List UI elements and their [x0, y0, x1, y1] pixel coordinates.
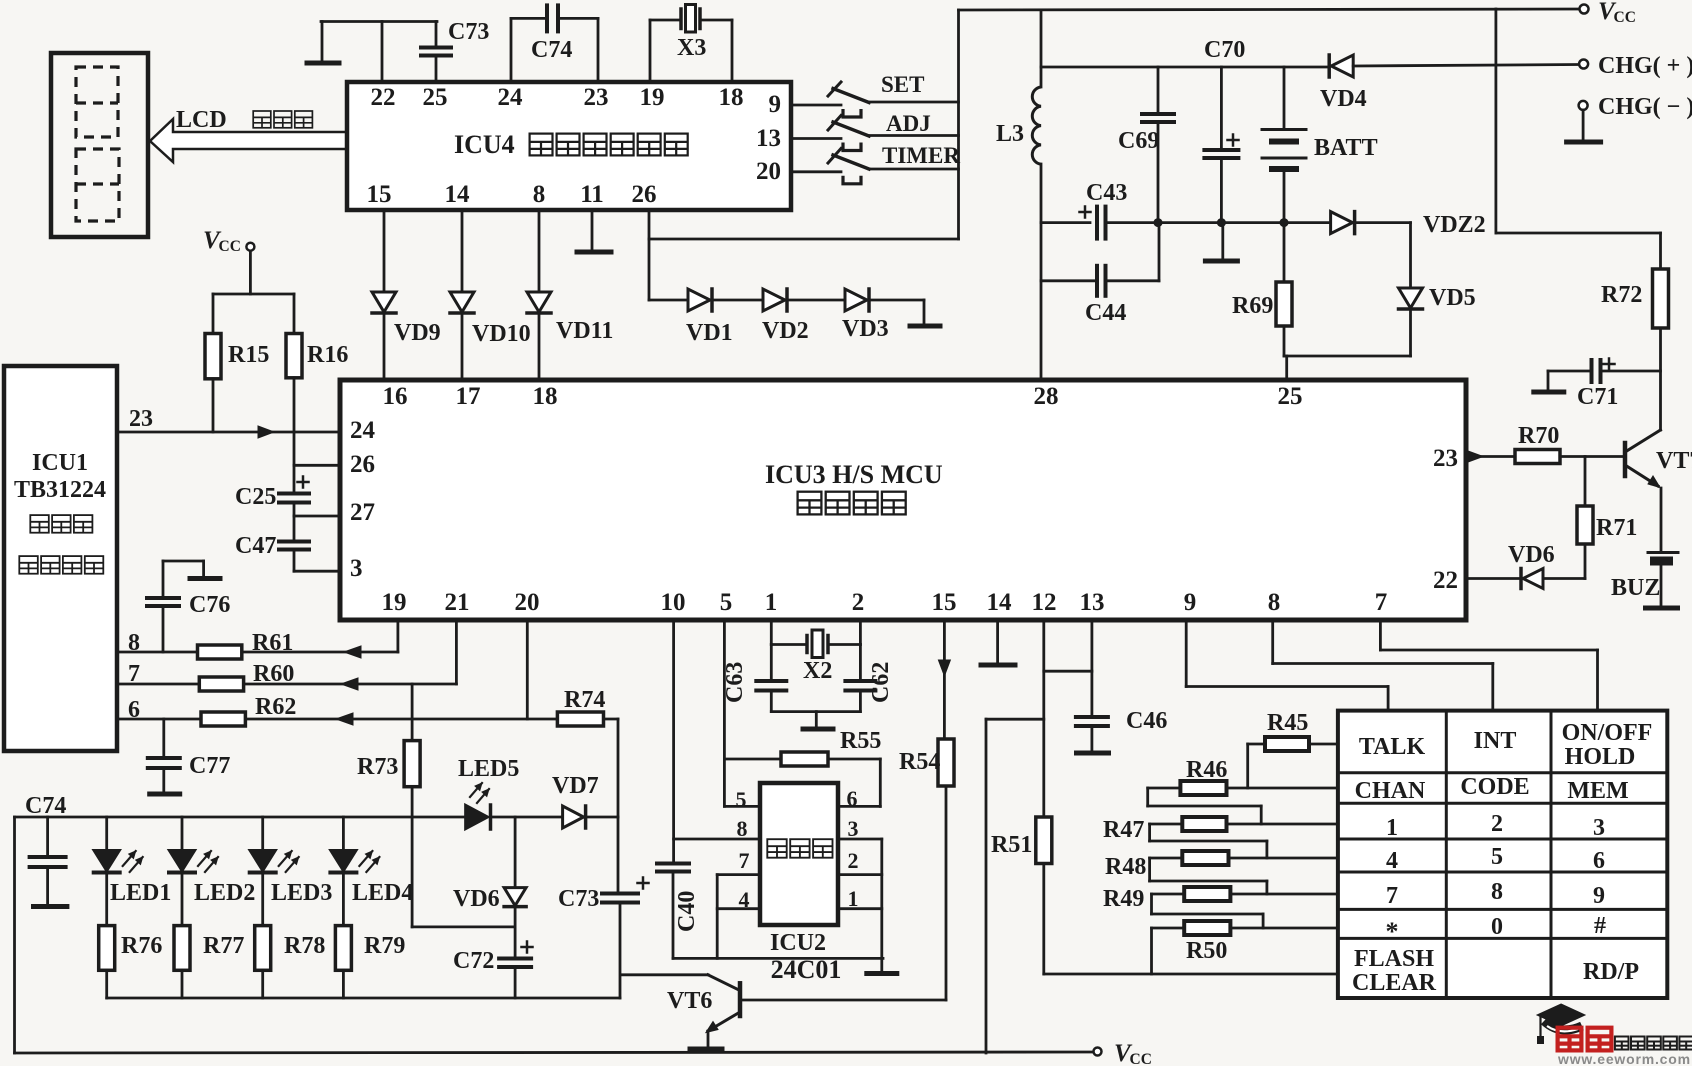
LED LED1 — [105, 817, 108, 850]
diode VD6 (LED block) — [514, 817, 517, 888]
diode VD7 — [563, 806, 584, 828]
LED LED4 — [342, 817, 345, 850]
svg-text:VD10: VD10 — [472, 321, 531, 347]
resistor R72 — [1659, 233, 1662, 269]
svg-text:R15: R15 — [228, 342, 269, 368]
capacitor C73 (LED block) — [617, 817, 620, 892]
bottom rail — [15, 1052, 1094, 1053]
svg-text:R78: R78 — [284, 933, 325, 959]
svg-text:C74: C74 — [25, 793, 66, 819]
svg-text:8: 8 — [1491, 879, 1503, 905]
svg-text:CHG( − ): CHG( − ) — [1598, 94, 1692, 120]
wire pin20 to switch TIMER — [791, 170, 841, 173]
resistor R79 — [342, 874, 345, 926]
wire pins 7/4 down to rail — [716, 875, 719, 959]
wire ICU1 pin7 row — [117, 683, 199, 686]
svg-text:2: 2 — [852, 589, 865, 616]
IC U1 box TB31224 — [4, 366, 117, 751]
svg-text:X3: X3 — [677, 35, 706, 61]
diode VD9 — [372, 292, 396, 312]
wire ICU2 bottom rail — [673, 957, 883, 960]
svg-text:L3: L3 — [996, 121, 1024, 147]
wire R48 left chain to row7 — [1150, 857, 1183, 860]
svg-text:MEM: MEM — [1567, 778, 1628, 804]
svg-text:3: 3 — [848, 816, 859, 841]
wire C76 to ground hook — [162, 561, 165, 598]
svg-text:23: 23 — [1433, 445, 1458, 472]
svg-text:12: 12 — [1032, 589, 1057, 616]
capacitor C72 — [514, 907, 517, 957]
svg-text:1: 1 — [765, 589, 778, 616]
wire R74 to LED bus — [604, 718, 619, 721]
wire ADJ to bus — [869, 134, 959, 137]
svg-text:2: 2 — [848, 848, 859, 873]
ground C77 — [162, 768, 165, 793]
wire ICU3 pin27 stub — [294, 515, 339, 518]
svg-text:R50: R50 — [1186, 938, 1227, 964]
svg-text:C40: C40 — [674, 891, 700, 932]
LED LED3 — [261, 817, 264, 850]
svg-text:8: 8 — [737, 816, 748, 841]
svg-text:25: 25 — [1278, 383, 1303, 410]
svg-text:6: 6 — [1593, 848, 1605, 874]
capacitor C74 (top) — [545, 5, 549, 31]
svg-text:ICU4: ICU4 — [454, 130, 515, 159]
wire Vcc to R15/R16 — [249, 251, 252, 294]
wire R79 to bottom bus — [342, 970, 345, 998]
svg-text:0: 0 — [1491, 914, 1503, 940]
junction row C43 — [1041, 221, 1090, 224]
svg-text:VD11: VD11 — [556, 318, 613, 344]
wire SET to bus — [869, 101, 959, 104]
wire ICU3 pin13 stub — [1091, 620, 1094, 716]
wire C69 stem — [1157, 67, 1160, 113]
svg-text:ADJ: ADJ — [886, 111, 931, 136]
svg-text:8: 8 — [533, 181, 546, 208]
LED top bus — [15, 816, 466, 819]
wire ICU2 pin6 — [838, 805, 880, 808]
crystal X2 — [805, 636, 809, 653]
svg-text:VT7: VT7 — [1656, 448, 1692, 474]
svg-text:26: 26 — [632, 181, 657, 208]
wire pin13 to switch ADJ — [791, 137, 841, 140]
wire VD6 to R71 — [1543, 577, 1585, 580]
resistor R45 — [1265, 737, 1309, 751]
resistor R69 — [1283, 223, 1286, 282]
resistor R71 — [1584, 457, 1587, 507]
wire ICU3 pin5 column — [723, 620, 726, 806]
svg-text:CLEAR: CLEAR — [1352, 970, 1437, 996]
wire ICU3 pin8 to keypad col2 — [1271, 620, 1274, 664]
svg-text:R73: R73 — [357, 754, 398, 780]
svg-text:R74: R74 — [564, 687, 605, 713]
wire ICU1 pin6 row — [117, 718, 201, 721]
svg-text:CC: CC — [1130, 1051, 1152, 1066]
svg-text:15: 15 — [932, 589, 957, 616]
svg-text:www.eeworm.com: www.eeworm.com — [1557, 1051, 1691, 1066]
wire R69 to ICU3 pin25 — [1283, 326, 1286, 356]
capacitor C43 (series) — [1080, 211, 1091, 214]
ground top-left — [321, 22, 324, 63]
wire pin14 down — [461, 210, 464, 292]
wire R45 left to CHAN row — [1248, 743, 1265, 746]
svg-text:VDZ2: VDZ2 — [1423, 212, 1486, 238]
IC U3 box H/S MCU — [340, 380, 1466, 620]
wire VT7 emitter to BUZ — [1660, 488, 1663, 551]
wire C71 left to ground — [1548, 370, 1589, 373]
terminal CHG(-) — [1579, 101, 1588, 110]
keypad table — [1338, 711, 1667, 998]
wire VT6 emitter to ground — [707, 1031, 710, 1048]
ground X2 — [803, 727, 833, 732]
wire ICU3 pin2 down — [859, 620, 862, 645]
wire R46 to CHAN — [1227, 787, 1338, 790]
svg-text:14: 14 — [445, 181, 471, 208]
svg-text:C62: C62 — [868, 662, 894, 703]
capacitor C63 — [770, 645, 773, 681]
svg-text:VD3: VD3 — [842, 316, 889, 342]
svg-text:19: 19 — [382, 589, 407, 616]
wire R50 left to FLASH row — [1152, 927, 1185, 930]
svg-text:TALK: TALK — [1359, 734, 1426, 760]
svg-text:VD9: VD9 — [394, 320, 441, 346]
svg-text:5: 5 — [720, 589, 733, 616]
svg-text:ON/OFF: ON/OFF — [1562, 720, 1653, 746]
svg-text:R54: R54 — [899, 749, 940, 775]
svg-text:HOLD: HOLD — [1565, 744, 1636, 770]
junction dots on C43 row — [1154, 218, 1163, 227]
svg-text:23: 23 — [129, 406, 153, 432]
svg-text:C63: C63 — [722, 662, 748, 703]
wire VD5 to R69 bottom row — [1409, 311, 1412, 356]
ground VT6 — [690, 1047, 722, 1052]
svg-text:CC: CC — [1614, 9, 1636, 26]
capacitor C40 — [657, 862, 689, 866]
wire VD1 row — [649, 299, 688, 302]
wire R62 to ICU3 pin20 and R74 — [245, 718, 557, 721]
terminal CHG(+) — [1579, 60, 1588, 69]
wire ICU1 pin23 to ICU3 pin24 — [117, 431, 339, 434]
diode VD6 (buzzer) — [1523, 569, 1543, 589]
svg-text:#: # — [1594, 913, 1606, 939]
ground VD3 — [910, 324, 940, 329]
wire X2 ground rail — [770, 691, 773, 712]
watermark 电子下载站 — [1615, 1037, 1629, 1050]
wire C70 row — [1041, 66, 1329, 69]
wire pin23 to R70 — [1466, 455, 1515, 458]
wire R72 to VT7 collector — [1659, 328, 1662, 430]
wire ICU3 pin1 down — [770, 620, 773, 645]
capacitor C73 (top) — [421, 46, 451, 50]
ground C46 — [1091, 726, 1094, 752]
svg-text:ICU2: ICU2 — [770, 930, 826, 956]
svg-text:R76: R76 — [121, 933, 162, 959]
wire ICU2 pin5 — [724, 805, 760, 808]
svg-text:28: 28 — [1034, 383, 1059, 410]
wire R48 to keypad 4 — [1229, 857, 1338, 860]
svg-text:X2: X2 — [803, 658, 832, 684]
wire C69 to junction row — [1157, 122, 1160, 223]
transistor VT6 — [621, 973, 708, 976]
wire pin11 down — [591, 210, 594, 251]
svg-text:R72: R72 — [1601, 282, 1642, 308]
svg-text:C74: C74 — [531, 37, 572, 63]
wire VD2-VD3 — [787, 299, 845, 302]
svg-text:4: 4 — [1386, 848, 1398, 874]
wire ICU2 pins 3/2/1 to ground — [838, 838, 882, 841]
IC U2 box 存储器 — [760, 783, 838, 925]
resistor R76 — [105, 874, 108, 926]
svg-text:9: 9 — [1184, 589, 1197, 616]
wire R15 down — [212, 379, 215, 432]
svg-text:C76: C76 — [189, 592, 230, 618]
capacitor C70 (electrolytic) — [1204, 148, 1238, 152]
IC U4 box (liquid crystal display module) — [347, 82, 791, 210]
resistor R55 — [724, 758, 781, 761]
svg-text:22: 22 — [1433, 567, 1458, 594]
left vertical rail — [13, 817, 16, 1053]
terminal Vcc (top) — [1580, 5, 1589, 14]
svg-text:LED2: LED2 — [194, 880, 255, 906]
wire pin25 up — [435, 57, 438, 82]
svg-text:R55: R55 — [840, 728, 881, 754]
svg-text:VD4: VD4 — [1320, 86, 1367, 112]
LED LED2 — [181, 817, 184, 850]
buzzer BUZ — [1648, 551, 1678, 554]
svg-text:R45: R45 — [1267, 710, 1308, 736]
wire ICU2 pin8 to C40 column — [674, 838, 760, 841]
svg-text:9: 9 — [769, 91, 782, 118]
wire VT6 base row — [742, 999, 946, 1002]
capacitor C44 (parallel loop) — [1041, 279, 1094, 282]
svg-text:27: 27 — [350, 499, 375, 526]
diode VD10 — [450, 292, 474, 312]
wire pin24 to C74 — [510, 18, 513, 82]
wire C74 to pin23 — [558, 17, 598, 20]
Vcc top rail — [959, 9, 1585, 10]
ground ICU2 — [867, 971, 897, 976]
svg-text:LED1: LED1 — [110, 880, 171, 906]
svg-text:ICU1: ICU1 — [32, 450, 88, 476]
wire ICU3 pin22 to VD6 — [1466, 577, 1519, 580]
wire pin15 down — [383, 210, 386, 292]
resistor R70 — [1515, 450, 1560, 464]
svg-text:7: 7 — [1386, 883, 1398, 909]
svg-text:VD6: VD6 — [453, 886, 500, 912]
svg-text:R16: R16 — [307, 342, 348, 368]
ground BUZ — [1646, 606, 1678, 611]
LCD display box — [51, 53, 148, 237]
wire R47 left chain to row4 — [1150, 823, 1183, 826]
svg-text:C25: C25 — [235, 484, 276, 510]
wire ICU3 pin9 to keypad col1 — [1185, 620, 1188, 687]
resistor R61 — [198, 645, 242, 659]
svg-text:18: 18 — [719, 84, 744, 111]
wire VD9 to ICU3 pin16 — [383, 315, 386, 380]
svg-text:ICU3 H/S MCU: ICU3 H/S MCU — [765, 460, 943, 489]
svg-text:FLASH: FLASH — [1354, 946, 1434, 972]
resistor R16 — [293, 294, 296, 334]
svg-text:LCD: LCD — [176, 107, 227, 133]
wire pin12 branch to bottom Vcc rail — [986, 718, 1044, 721]
wire pin9 to switch SET — [791, 104, 841, 107]
watermark 虫虫 red — [1558, 1028, 1582, 1051]
wire R70 to VT7 base — [1560, 455, 1623, 458]
wire ICU3 pin15 with arrow — [943, 620, 946, 739]
svg-text:8: 8 — [1268, 589, 1281, 616]
ICU3 pin23 arrow out — [1468, 451, 1483, 462]
svg-text:2: 2 — [1491, 811, 1503, 837]
wire pin26 down — [648, 210, 651, 300]
wire VDZ2 corner down — [1357, 221, 1411, 224]
svg-text:18: 18 — [533, 383, 558, 410]
wire R71 to VD6 row — [1584, 544, 1587, 579]
svg-text:7: 7 — [1375, 589, 1388, 616]
capacitor C71 — [1590, 360, 1594, 382]
capacitor C62 — [859, 645, 862, 681]
wire R50 to keypad star — [1230, 927, 1338, 930]
ground pin11 — [577, 250, 611, 255]
wire ICU2 pin4 — [717, 907, 760, 910]
ground ICU3 pin14 — [996, 620, 999, 664]
wire R76 to bottom bus — [105, 970, 108, 998]
svg-text:C73: C73 — [558, 886, 599, 912]
wire C47 to pin3 — [293, 550, 296, 572]
svg-text:VD6: VD6 — [1508, 542, 1555, 568]
svg-text:VD1: VD1 — [686, 320, 733, 346]
svg-text:9: 9 — [1593, 883, 1605, 909]
svg-text:C43: C43 — [1086, 180, 1127, 206]
ground CHG(-) — [1582, 110, 1585, 141]
battery BATT — [1262, 128, 1306, 131]
svg-text:5: 5 — [736, 787, 747, 812]
svg-text:14: 14 — [987, 589, 1013, 616]
svg-text:23: 23 — [584, 84, 609, 111]
wire pin19 to X3 — [649, 20, 652, 82]
capacitor C47 — [293, 516, 296, 541]
wire BATT to junction row — [1283, 171, 1286, 223]
resistor R60 — [199, 677, 243, 691]
resistor R62 — [201, 712, 245, 726]
wire VD4 to CHG+ — [1353, 65, 1579, 67]
diode VD4 — [1331, 55, 1353, 77]
wire L3 to C43 row and pin28 — [1040, 164, 1043, 380]
wire R54 to VT6 base — [945, 786, 948, 1000]
capacitor C74 — [46, 817, 49, 856]
svg-text:VD2: VD2 — [762, 318, 809, 344]
svg-text:1: 1 — [1386, 815, 1398, 841]
wire ICU2 pin7 — [717, 873, 760, 876]
diode VD11 — [527, 292, 551, 312]
wire ICU3 pin12 column — [1042, 620, 1045, 817]
svg-text:VT6: VT6 — [667, 988, 712, 1014]
inductor L3 — [1032, 87, 1041, 164]
wire top-left rail — [321, 20, 437, 23]
wire X2 row left — [771, 643, 807, 646]
wire C70 cap stem — [1220, 67, 1223, 149]
wire VD7 to R74 column — [586, 816, 618, 819]
right rail from Vcc — [1495, 9, 1498, 233]
svg-text:7: 7 — [739, 848, 750, 873]
resistor R74 — [557, 712, 603, 726]
terminal Vcc (bottom) — [1094, 1048, 1102, 1056]
capacitor C25 — [279, 492, 309, 496]
wire R46 left chain to row1 — [1148, 787, 1181, 790]
resistor R77 — [181, 874, 184, 926]
ground C71 — [1534, 390, 1564, 395]
wire R73 down to VD6 row — [411, 787, 414, 927]
wire VD3 to ground — [869, 299, 924, 302]
capacitor C77 — [162, 719, 165, 757]
svg-text:C77: C77 — [189, 753, 230, 779]
wire R49 left chain to row-star — [1152, 893, 1185, 896]
wire C76 bottom to pin8 row — [162, 606, 165, 652]
svg-text:R79: R79 — [364, 933, 405, 959]
svg-text:3: 3 — [1593, 815, 1605, 841]
wire ICU3 pin26 stub — [294, 464, 339, 467]
svg-text:20: 20 — [515, 589, 540, 616]
wire X3 to pin18 — [700, 19, 732, 22]
svg-text:CODE: CODE — [1460, 774, 1529, 800]
ground C76 — [190, 576, 220, 581]
svg-text:C46: C46 — [1126, 708, 1167, 734]
wire ICU1 pin8 row — [117, 651, 198, 654]
diode VD1 — [688, 289, 710, 311]
keypad column dividers — [1445, 711, 1448, 998]
resistor R47 — [1182, 817, 1226, 831]
wire R60 to ICU3 pin21 — [244, 683, 457, 686]
wire R77 to bottom bus — [181, 970, 184, 998]
wire pin26 to switch bus — [649, 238, 959, 241]
diode VD2 — [763, 289, 785, 311]
svg-text:*: * — [1386, 917, 1399, 946]
wire R61 to ICU3 pin19 — [242, 651, 398, 654]
keypad row dividers — [1338, 771, 1667, 774]
wire R16 down to C25 column — [293, 378, 296, 493]
wire ICU3 pin10 / C40 column — [672, 620, 675, 862]
diode VD5 — [1399, 288, 1423, 308]
svg-text:CHG( + ): CHG( + ) — [1598, 53, 1692, 79]
ground on junction row — [1221, 223, 1224, 260]
wire R55 right to ICU2 pin6 — [828, 758, 880, 761]
svg-text:24: 24 — [498, 84, 524, 111]
wire pin12 to pin13 link — [1044, 670, 1092, 673]
svg-text:25: 25 — [423, 84, 448, 111]
svg-text:5: 5 — [1491, 844, 1503, 870]
svg-text:R49: R49 — [1103, 886, 1144, 912]
wire R47 to keypad 1 — [1227, 823, 1338, 826]
svg-text:10: 10 — [661, 589, 686, 616]
wire BATT stem — [1283, 67, 1286, 128]
wire R78 to bottom bus — [261, 970, 264, 998]
svg-text:R70: R70 — [1518, 423, 1559, 449]
svg-text:C44: C44 — [1085, 300, 1126, 326]
svg-text:R77: R77 — [203, 933, 244, 959]
zener diode VDZ2 — [1284, 221, 1331, 224]
capacitor C76 — [147, 596, 179, 600]
LCD digit 1 (dashed) — [76, 67, 118, 137]
wire VD1-VD2 — [712, 299, 763, 302]
svg-text:3: 3 — [350, 555, 363, 582]
svg-text:RD/P: RD/P — [1583, 959, 1639, 985]
svg-text:R71: R71 — [1596, 515, 1637, 541]
wire C73 to bottom bus and VT6 — [619, 903, 622, 999]
wire TIMER to bus — [869, 168, 959, 171]
resistor R46 — [1180, 781, 1226, 795]
svg-text:R62: R62 — [255, 694, 296, 720]
switch SET — [833, 89, 869, 103]
svg-text:17: 17 — [456, 383, 481, 410]
